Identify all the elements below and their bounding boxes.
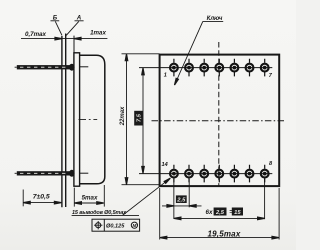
- horizontal centerline: [152, 120, 287, 122]
- background: [0, 0, 1, 1]
- flange plate: [74, 53, 80, 186]
- svg-text:2,5: 2,5: [176, 197, 186, 203]
- svg-text:14: 14: [161, 162, 168, 168]
- svg-text:M: M: [132, 223, 136, 228]
- pins face view: [170, 59, 269, 183]
- body centerline: [79, 119, 98, 121]
- svg-text:1: 1: [164, 73, 167, 79]
- bottom extension lines: [173, 179, 175, 219]
- extension line flange face: [73, 36, 75, 53]
- top row axis: [139, 67, 272, 69]
- leader from pin note to pin 14: [72, 214, 139, 216]
- kluch leader: [203, 21, 224, 23]
- case rectangle: [160, 55, 280, 187]
- svg-text:=: =: [229, 210, 233, 216]
- svg-text:15 выводов Ø0,5max: 15 выводов Ø0,5max: [72, 210, 127, 216]
- pin circles top row: 1..7: [170, 59, 269, 77]
- dark value boxes: [134, 111, 243, 216]
- tolerance frame: [92, 219, 140, 231]
- svg-text:15: 15: [234, 210, 241, 216]
- pin circles bottom row: 14..8: [170, 165, 269, 183]
- panel line B (left section line): [61, 36, 63, 207]
- svg-text:2,5: 2,5: [215, 210, 225, 216]
- svg-text:1max: 1max: [90, 30, 106, 37]
- svg-text:Б: Б: [53, 14, 58, 21]
- top pin: [15, 64, 89, 71]
- dimension 19,5max: [160, 237, 279, 239]
- svg-text:19,5max: 19,5max: [208, 229, 241, 238]
- label B leader: [55, 21, 62, 35]
- dimension 0,7max / 1max line: [21, 38, 107, 40]
- vertical centerline: [218, 42, 220, 186]
- svg-text:7±0,5: 7±0,5: [33, 194, 50, 201]
- relay body: [80, 55, 105, 184]
- dimension 22max: [122, 53, 160, 55]
- svg-text:Ø0,125: Ø0,125: [106, 224, 125, 230]
- bottom pin: [15, 170, 89, 177]
- svg-text:А: А: [76, 14, 82, 21]
- dimension 7,5: [142, 68, 144, 174]
- panel line A (right section line): [65, 34, 67, 208]
- dimension 2,5: [162, 205, 202, 207]
- svg-text:Ключ: Ключ: [207, 16, 223, 22]
- svg-text:6x: 6x: [206, 209, 213, 216]
- svg-text:22max: 22max: [120, 106, 126, 126]
- svg-text:7,5: 7,5: [137, 113, 143, 122]
- dimension 5max: [73, 188, 75, 207]
- label A leader: [66, 21, 79, 35]
- dimension 7+-0,5: [22, 190, 24, 207]
- dimension 6x2,5=15: [174, 217, 265, 219]
- svg-text:0,7max: 0,7max: [25, 31, 47, 38]
- svg-text:5max: 5max: [82, 195, 98, 202]
- bottom row axis: [139, 173, 272, 175]
